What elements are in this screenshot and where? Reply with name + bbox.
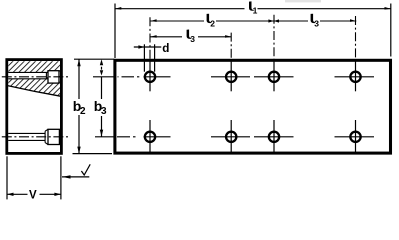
hole H4 top xyxy=(350,72,360,82)
top bore walls xyxy=(8,72,46,79)
bottom extension line xyxy=(73,153,113,155)
V arrow right xyxy=(54,193,61,196)
l2 arrow left xyxy=(150,19,156,22)
bottom screw shaft walls xyxy=(8,133,45,140)
centerline hole H2 vertical xyxy=(230,59,232,91)
l3 left label xyxy=(187,30,192,39)
d extension line left xyxy=(143,44,145,71)
svg-text:V: V xyxy=(29,190,37,200)
centerline hole H4 vertical upper xyxy=(355,16,357,59)
centerline hole H1 horizontal xyxy=(144,76,171,78)
centerline bottom row near left edge xyxy=(117,136,136,138)
l1 extension line left xyxy=(114,4,116,59)
hole H2 top xyxy=(226,72,236,82)
svg-text:d: d xyxy=(162,42,169,55)
svg-text:2: 2 xyxy=(210,18,215,28)
b2 arrow up xyxy=(77,59,80,66)
counterbore box xyxy=(48,71,59,83)
V extension line left xyxy=(6,156,8,199)
top bore step stubs xyxy=(46,72,48,78)
l1 arrow left xyxy=(115,7,121,10)
svg-text:2: 2 xyxy=(80,106,86,117)
hatched section area xyxy=(8,61,60,96)
bottom screw head xyxy=(48,129,59,144)
centerline hole H2 horizontal xyxy=(211,76,250,78)
b3 arrow down mid xyxy=(100,70,103,75)
l2 label xyxy=(207,14,212,23)
centerline hole H8 vertical xyxy=(355,120,357,152)
top bore channel (white) xyxy=(8,72,46,78)
hole H6 bottom xyxy=(226,132,236,142)
l1 label xyxy=(249,1,254,10)
l1 arrow right xyxy=(385,7,391,10)
l3 left arrow left xyxy=(150,35,156,38)
l3 right label xyxy=(311,14,316,23)
centerline hole H1 vertical xyxy=(149,59,151,91)
V arrow left xyxy=(7,193,14,196)
b3 dimension line xyxy=(101,67,103,137)
centerline hole H4 vertical xyxy=(355,59,357,91)
b3 arrow up top xyxy=(100,59,103,65)
centerline top row near left edge xyxy=(118,76,140,78)
centerline hole H2 vertical upper xyxy=(230,33,232,59)
b3 arrow down bottom xyxy=(100,130,103,137)
l3 left dimension line xyxy=(150,36,231,38)
b2 arrow down xyxy=(77,147,80,154)
centerline hole H5 vertical xyxy=(149,120,151,152)
sloped lower face line xyxy=(7,86,60,97)
leader line with arrow xyxy=(62,176,89,178)
l3 right arrow left at junction xyxy=(274,19,279,22)
b3 mid extension line xyxy=(93,76,115,78)
bottom pin centerline xyxy=(2,136,69,138)
centerline hole H6 vertical xyxy=(230,120,232,152)
hole H8 bottom xyxy=(350,132,360,142)
bottom screw chamfer xyxy=(45,129,48,144)
hole H7 bottom xyxy=(269,132,279,142)
l2 dimension line xyxy=(150,20,273,22)
b2 dimension line xyxy=(78,59,80,153)
l1 dimension line xyxy=(115,8,391,10)
svg-text:1: 1 xyxy=(253,6,258,16)
stray gray artifact top right xyxy=(285,0,321,2)
centerline hole H3 vertical upper xyxy=(273,15,275,59)
centerline hole H7 horizontal xyxy=(254,136,294,138)
centerline hole H4 horizontal xyxy=(335,76,375,78)
centerline hole H7 vertical xyxy=(273,120,275,152)
hole H5 bottom xyxy=(145,132,155,142)
centerline hole H3 horizontal xyxy=(254,76,294,78)
centerline hole H3 vertical xyxy=(273,59,275,91)
V extension line right xyxy=(60,156,62,199)
svg-text:3: 3 xyxy=(314,18,319,28)
l1 extension line right xyxy=(390,4,392,57)
V dimension line xyxy=(7,193,61,195)
l2 arrow right at junction xyxy=(268,19,273,22)
centerline hole H1 vertical upper xyxy=(149,17,151,59)
top extension line xyxy=(74,58,114,60)
d extension line right xyxy=(154,44,156,71)
b3 bottom extension line xyxy=(95,136,114,138)
centerline hole H6 horizontal xyxy=(211,136,250,138)
surface check mark xyxy=(81,164,90,175)
hole H1 top xyxy=(145,72,155,82)
l3 right dimension line xyxy=(274,20,357,22)
section body outline xyxy=(7,60,62,154)
centerline hole H8 horizontal xyxy=(335,136,375,138)
svg-text:3: 3 xyxy=(101,106,107,117)
d dimension line + arrow xyxy=(134,46,162,48)
plate outline xyxy=(115,60,391,153)
svg-text:3: 3 xyxy=(190,34,195,44)
top pin centerline xyxy=(2,76,69,78)
l3 left arrow right xyxy=(225,35,231,38)
hole H3 top xyxy=(269,72,279,82)
centerline hole H5 horizontal xyxy=(144,136,171,138)
l3 right arrow right xyxy=(350,19,356,22)
